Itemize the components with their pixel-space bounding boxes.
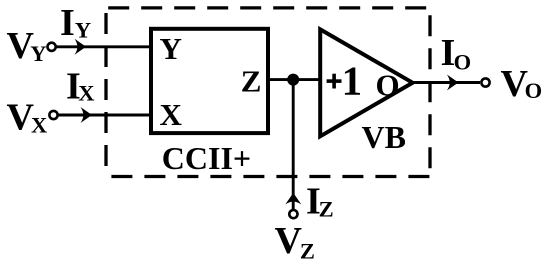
wire X input bbox=[59, 114, 152, 117]
junction node Z bbox=[287, 74, 299, 86]
arrowhead IX bbox=[81, 107, 93, 123]
svg-text:X: X bbox=[78, 80, 94, 105]
svg-text:Y: Y bbox=[160, 31, 182, 66]
terminal VO bbox=[481, 78, 489, 86]
svg-text:O: O bbox=[376, 68, 400, 103]
svg-text:I: I bbox=[60, 2, 75, 44]
svg-text:V: V bbox=[275, 220, 303, 262]
arrowhead IZ (up) bbox=[285, 193, 301, 205]
label +1 horizontal bar bbox=[327, 79, 342, 83]
svg-text:Z: Z bbox=[300, 239, 315, 264]
svg-text:Y: Y bbox=[30, 41, 46, 66]
terminal VZ bbox=[289, 210, 297, 218]
svg-text:Z: Z bbox=[319, 197, 334, 222]
svg-text:CCII+: CCII+ bbox=[162, 140, 251, 176]
label +1 vertical bar bbox=[332, 74, 336, 89]
arrowhead IY bbox=[75, 39, 87, 55]
wire Z vertical bbox=[292, 80, 295, 210]
svg-text:1: 1 bbox=[342, 57, 363, 103]
svg-text:O: O bbox=[525, 78, 543, 103]
dashed enclosure box left edge bbox=[104, 13, 107, 177]
svg-text:Z: Z bbox=[241, 63, 262, 98]
dashed enclosure box bottom edge bbox=[111, 175, 430, 178]
svg-text:Y: Y bbox=[75, 17, 91, 42]
wire buffer output bbox=[413, 81, 480, 84]
arrowhead IO bbox=[447, 75, 459, 91]
svg-text:X: X bbox=[31, 112, 47, 137]
svg-text:VB: VB bbox=[362, 119, 406, 155]
wire Y input bbox=[57, 45, 152, 48]
dashed enclosure box top edge bbox=[108, 6, 430, 9]
svg-text:X: X bbox=[160, 97, 183, 132]
dashed enclosure box right edge bbox=[428, 15, 431, 176]
terminal VY bbox=[48, 43, 56, 51]
CCII+ block U1 bbox=[151, 29, 268, 133]
voltage buffer VB (triangle) bbox=[320, 29, 412, 136]
svg-text:O: O bbox=[454, 49, 472, 74]
wire Z output bbox=[267, 78, 320, 81]
terminal VX bbox=[49, 111, 57, 119]
